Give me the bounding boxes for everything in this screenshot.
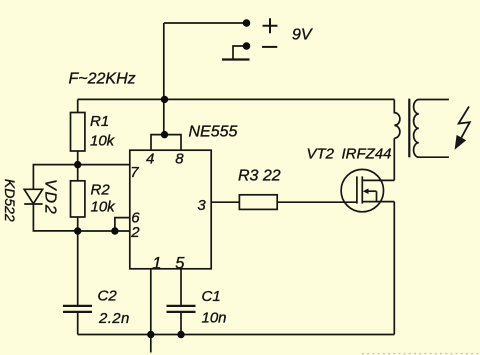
svg-text:10k: 10k [90, 132, 116, 149]
svg-text:F~22KHz: F~22KHz [69, 71, 136, 88]
svg-text:3: 3 [197, 197, 206, 214]
svg-text:R2: R2 [91, 182, 111, 199]
svg-text:IRFZ44: IRFZ44 [342, 145, 392, 162]
svg-text:VD2: VD2 [42, 179, 59, 216]
svg-text:8: 8 [175, 150, 184, 167]
svg-text:R3 22: R3 22 [238, 167, 281, 184]
svg-text:NE555: NE555 [189, 123, 238, 140]
svg-text:R1: R1 [90, 113, 109, 130]
svg-text:4: 4 [146, 150, 154, 167]
svg-text:7: 7 [130, 164, 139, 181]
svg-text:C2: C2 [98, 288, 118, 305]
svg-text:10k: 10k [91, 198, 117, 215]
svg-text:C1: C1 [202, 288, 221, 305]
svg-text:5: 5 [175, 254, 185, 272]
svg-text:1: 1 [152, 254, 161, 272]
svg-text:2.2n: 2.2n [98, 310, 130, 327]
svg-text:KD522: KD522 [2, 179, 18, 222]
svg-text:9V: 9V [292, 27, 313, 44]
svg-text:10n: 10n [202, 309, 227, 326]
svg-text:2: 2 [130, 224, 140, 241]
svg-text:VT2: VT2 [307, 145, 335, 162]
